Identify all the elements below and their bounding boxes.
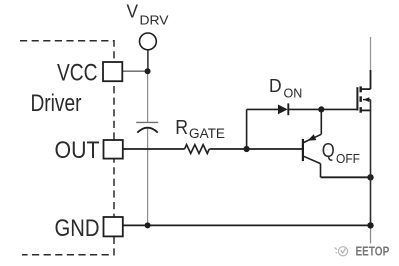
wire VCC pin to VDRV node [122,70,148,72]
diode D_ON [278,103,288,115]
wire node B to MOSFET gate [321,108,357,110]
label OUT [55,137,100,164]
svg-text:DRV: DRV [140,12,169,27]
VDRV supply circle [140,33,157,50]
wire source rail [370,100,372,226]
wire Q_OFF collector to rail [321,176,371,178]
svg-text:R: R [175,117,188,139]
watermark logo icon [335,247,348,256]
label D_ON [269,76,302,100]
pin box VCC [103,62,122,81]
label VCC [57,60,98,87]
wire drain rail upper (gray) [370,37,372,70]
svg-text:Driver: Driver [31,90,82,117]
driver block dashed outline [20,41,114,255]
wire resistor to node A [209,148,246,150]
watermark text EETOP [356,245,390,259]
node junction collector/rail [367,174,373,180]
node B junction (gate node) [318,106,324,112]
wire rail below ground (gray) [370,225,372,243]
resistor R_GATE [185,145,210,154]
wire diode cathode to node B [288,108,321,110]
label Q_OFF [322,140,360,166]
svg-text:GND: GND [55,215,100,242]
wire VDRV source to node [147,50,149,71]
svg-text:GATE: GATE [189,126,225,141]
capacitor C (bypass) [136,122,158,132]
node junction VCC/VDRV [145,68,151,74]
svg-text:V: V [127,2,139,22]
MOSFET M1 [357,86,370,112]
node junction capacitor/ground [145,222,151,228]
wire drain rail lower [370,70,372,89]
svg-text:ON: ON [284,85,303,100]
label V_DRV [127,2,169,28]
wire ground rail [123,224,371,226]
wire base of Q_OFF from node A [247,148,304,150]
svg-text:EETOP: EETOP [356,245,390,259]
wire OUT pin to resistor [123,148,185,150]
label Driver [31,90,82,117]
label GND [55,215,100,242]
pin box GND [104,217,123,236]
svg-text:Q: Q [322,140,335,162]
node junction rail/ground [367,222,373,228]
svg-text:OUT: OUT [55,137,100,164]
wire diode row anode segment [247,108,278,110]
node A junction (after R_GATE) [244,146,250,152]
wire node A up to diode row [246,109,248,149]
svg-text:D: D [269,76,282,96]
wire capacitor branch upper (gray) [147,71,149,122]
svg-text:VCC: VCC [57,60,98,87]
transistor Q_OFF (PNP) [303,111,321,177]
label R_GATE [175,117,225,141]
pin box OUT [104,140,123,159]
wire capacitor branch lower (gray) [147,129,149,226]
svg-text:OFF: OFF [336,151,360,166]
